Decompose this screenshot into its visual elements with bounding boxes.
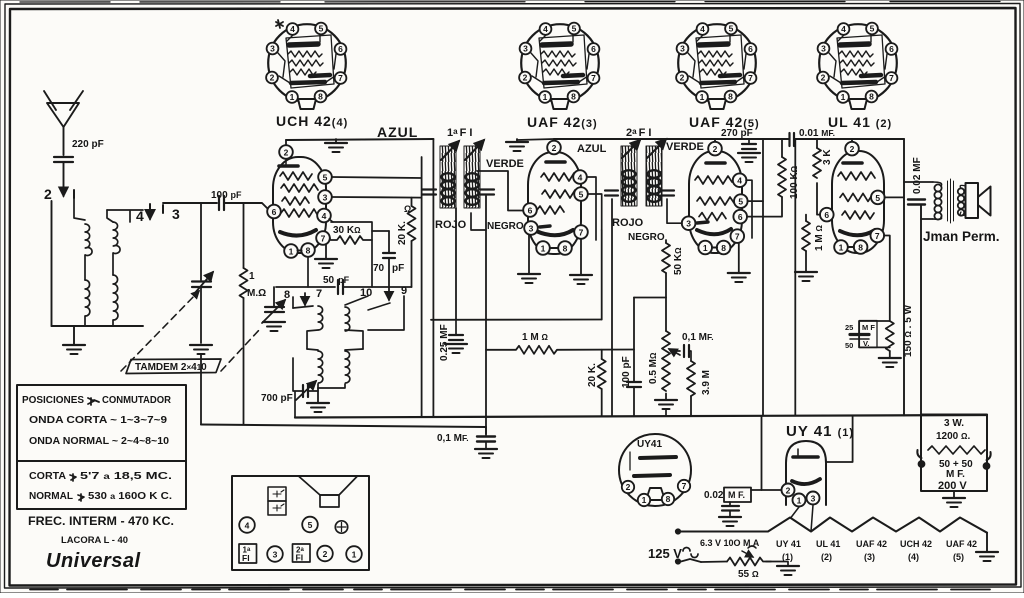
svg-text:2aF I: 2aF I: [626, 127, 651, 139]
svg-text:AZUL: AZUL: [377, 124, 418, 140]
wire UY41 plate to bus: [826, 416, 853, 462]
ground gang 2: [263, 322, 285, 331]
wire pin3 to IF2: [667, 199, 682, 223]
svg-text:3: 3: [686, 219, 691, 229]
connector box: [232, 476, 369, 570]
svg-text:0,1 MF.: 0,1 MF.: [437, 433, 469, 444]
transformer core: [948, 179, 954, 223]
svg-text:25: 25: [845, 323, 853, 332]
svg-text:UY41: UY41: [637, 439, 662, 450]
antenna coil L2 secondary: [107, 210, 120, 326]
capacitor 220 pF: [54, 139, 104, 196]
capacitor 100 pF AVC: [621, 356, 641, 415]
resistor 20 K: [397, 198, 416, 287]
border top smudge: [20, 1, 1000, 4]
connector terminal 2ª FI: [293, 544, 311, 563]
svg-text:7: 7: [316, 288, 322, 300]
wire 100pF branch: [633, 298, 635, 382]
svg-text:5: 5: [323, 173, 328, 183]
connector terminal 5: [302, 517, 318, 533]
svg-text:ONDA CORTA ~ 1~3~7~9: ONDA CORTA ~ 1~3~7~9: [29, 415, 168, 426]
svg-text:0,1 MF.: 0,1 MF.: [682, 332, 714, 343]
svg-text:6: 6: [272, 207, 277, 217]
ground UCH42 cathode: [315, 245, 337, 268]
wire B+ drop 2: [794, 139, 796, 416]
capacitor 0.02 MF tone: [908, 157, 925, 204]
svg-text:0.02: 0.02: [704, 490, 724, 501]
svg-text:50: 50: [845, 341, 853, 350]
svg-text:4: 4: [322, 211, 327, 221]
svg-text:NORMAL: NORMAL: [29, 491, 73, 502]
svg-text:50 KΩ: 50 KΩ: [673, 247, 684, 275]
svg-text:100 pF: 100 pF: [211, 190, 242, 201]
svg-text:1aF I: 1aF I: [447, 127, 472, 139]
svg-text:7: 7: [579, 228, 584, 238]
svg-text:(2): (2): [821, 552, 832, 562]
info box posiciones: [17, 385, 186, 461]
output pentode UL 41: [820, 139, 885, 254]
wire pin5 right down: [588, 194, 602, 230]
svg-text:1 M Ω: 1 M Ω: [814, 225, 825, 251]
svg-text:0.25 MF: 0.25 MF: [439, 324, 450, 361]
svg-text:6: 6: [738, 212, 743, 222]
ground electrolytic: [943, 491, 965, 507]
label TAMDEM 2x410: [121, 291, 260, 374]
heater chain 6.3V: [675, 518, 987, 552]
resistor 100 KΩ: [747, 139, 800, 217]
wire NEGRO secondary bottom: [471, 213, 486, 230]
svg-text:6: 6: [528, 206, 533, 216]
svg-text:200 V: 200 V: [938, 480, 967, 492]
ground heater chain: [976, 552, 998, 561]
svg-text:LACORA L - 40: LACORA L - 40: [61, 535, 128, 546]
svg-text:M F.: M F.: [946, 469, 965, 480]
svg-text:FI: FI: [296, 553, 304, 563]
wire IF1 inner down: [432, 139, 434, 417]
svg-text:700 pF: 700 pF: [261, 393, 293, 404]
ground UAF42(3) pin7: [570, 239, 592, 284]
svg-text:3 K: 3 K: [822, 149, 833, 165]
tuning capacitor gang section 1: [192, 203, 213, 343]
resistor 20 K decoupling: [587, 350, 606, 416]
wire L2 top to switch: [107, 210, 143, 222]
wire IF1 right top: [485, 196, 487, 434]
svg-text:1: 1: [703, 243, 708, 253]
svg-text:ONDA NORMAL ~ 2~4~8~10: ONDA NORMAL ~ 2~4~8~10: [29, 436, 169, 447]
svg-text:1: 1: [797, 496, 802, 506]
oscillator coil top-right: [345, 296, 404, 349]
svg-text:4: 4: [737, 176, 742, 186]
wire pin5 to screen: [885, 196, 904, 198]
svg-text:2: 2: [284, 148, 289, 158]
antenna: [44, 91, 83, 155]
svg-text:(1): (1): [782, 552, 793, 562]
svg-text:M F.: M F.: [728, 490, 745, 500]
ground below coils: [63, 326, 85, 354]
capacitor 0.01 MF: [790, 128, 905, 146]
heater labels: [776, 539, 977, 562]
svg-text:5: 5: [875, 193, 880, 203]
svg-text:2: 2: [44, 186, 53, 202]
tube top-view UL 41 (2): [817, 23, 897, 109]
connector terminal 1ª FI: [239, 544, 257, 563]
svg-text:ROJO: ROJO: [435, 219, 467, 231]
svg-text:M F: M F: [862, 323, 875, 332]
ground oscillator: [307, 388, 329, 412]
svg-text:3.9 M: 3.9 M: [701, 370, 712, 395]
svg-text:4: 4: [136, 208, 145, 224]
wire pin3 row: [332, 196, 422, 199]
wire pin5 to right: [332, 177, 422, 178]
svg-text:CONMUTADOR: CONMUTADOR: [102, 395, 172, 406]
oscillator terminals 8 7 10 9: [284, 285, 407, 308]
electrolytic 25MF 50V: [845, 321, 890, 351]
svg-text:3: 3: [529, 224, 534, 234]
svg-text:0.02 MF: 0.02 MF: [912, 157, 923, 194]
svg-text:100 pF: 100 pF: [621, 356, 632, 388]
svg-text:3: 3: [811, 494, 816, 504]
svg-text:pF: pF: [392, 263, 404, 274]
pentode UAF 42 (3): [523, 139, 588, 255]
svg-text:7: 7: [321, 234, 326, 244]
svg-text:NEGRO: NEGRO: [628, 232, 665, 243]
wire IF2 left down: [611, 199, 613, 416]
svg-text:1200 Ω.: 1200 Ω.: [936, 431, 970, 442]
capacitor 50 pF: [276, 275, 412, 294]
svg-text:FI: FI: [242, 553, 250, 563]
svg-text:(3): (3): [864, 552, 875, 562]
svg-text:NEGRO: NEGRO: [487, 221, 524, 232]
svg-text:4: 4: [245, 521, 250, 531]
resistor 1 MΩ grid leak: [240, 203, 267, 425]
triode-heptode UCH 42: [267, 140, 332, 258]
rectifier UY 41 symbol: [782, 423, 855, 507]
wire AVC return line: [201, 425, 486, 428]
svg-text:5'7 a 18,5 MC.: 5'7 a 18,5 MC.: [80, 471, 172, 482]
potentiometer 0.5 MΩ volume: [648, 298, 680, 400]
wire AVC line: [431, 319, 602, 321]
switch terminals 4 / 3: [136, 204, 181, 224]
ground volume pot: [655, 400, 677, 409]
svg-text:2: 2: [323, 549, 328, 559]
border bottom smudge: [30, 589, 990, 591]
svg-text:1: 1: [642, 495, 647, 505]
svg-text:8: 8: [306, 246, 311, 256]
tube top-view UAF 42 (5): [676, 23, 756, 109]
switch terminals 2 / 1: [44, 186, 74, 326]
svg-text:5: 5: [579, 190, 584, 200]
svg-text:270 pF: 270 pF: [721, 128, 753, 139]
capacitor 70 pF: [372, 231, 404, 300]
ground tuning cap: [190, 345, 212, 354]
svg-text:70: 70: [373, 263, 385, 274]
wire B+ bus bottom: [295, 415, 987, 418]
svg-text:Universal: Universal: [46, 550, 141, 572]
ground UAF42(5) pin7: [728, 243, 750, 282]
connector terminal 1: [346, 546, 362, 562]
pentode UAF 42 (5): [682, 139, 748, 254]
svg-text:20 K.: 20 K.: [587, 363, 598, 387]
wire UY41 cathode to 0.02: [762, 416, 782, 490]
resistor 3.9 M: [687, 361, 712, 416]
oscillator coil top-left: [293, 306, 323, 349]
ground on AZUL bus: [325, 139, 347, 152]
svg-text:3: 3: [323, 193, 328, 203]
wire bus 2nd: [554, 138, 789, 140]
ground on bus: [506, 139, 554, 151]
svg-text:7: 7: [735, 232, 740, 242]
svg-text:3 W.: 3 W.: [944, 418, 964, 429]
connector terminal 3: [267, 546, 283, 562]
svg-text:55 Ω: 55 Ω: [738, 569, 759, 580]
svg-text:POSICIONES: POSICIONES: [22, 395, 84, 406]
connector terminal +: [335, 521, 347, 533]
svg-text:TAMDEM 2×410: TAMDEM 2×410: [135, 362, 207, 373]
resistor 50 KΩ: [662, 240, 684, 298]
resistor 1 M grid UL41: [802, 215, 825, 271]
wire IF1 left down: [421, 157, 423, 417]
svg-text:1: 1: [289, 247, 294, 257]
svg-text:(5): (5): [953, 552, 964, 562]
resistor 3 K: [813, 139, 833, 215]
svg-text:6: 6: [824, 210, 829, 220]
capacitor IF1 secondary: [480, 190, 494, 195]
ground 55ohm: [777, 566, 799, 575]
wire pin5 right: [748, 200, 763, 202]
capacitor IF2 primary: [605, 191, 618, 196]
wire VERDE to grid pin6: [477, 171, 523, 211]
svg-text:3: 3: [273, 550, 278, 560]
svg-text:8: 8: [721, 243, 726, 253]
svg-text:1: 1: [249, 271, 255, 282]
svg-text:UCH 42: UCH 42: [900, 539, 932, 549]
svg-text:M.Ω: M.Ω: [247, 288, 266, 299]
oscillator coil bottom-left: [307, 349, 323, 388]
svg-text:8: 8: [666, 494, 671, 504]
oscillator coil bottom-right: [318, 303, 390, 388]
resistor 30 KΩ: [329, 219, 372, 287]
mains 125 V: [648, 546, 701, 564]
svg-text:30 KΩ: 30 KΩ: [333, 225, 361, 236]
svg-text:1 M Ω: 1 M Ω: [522, 332, 548, 343]
svg-text:5: 5: [738, 197, 743, 207]
tube top-view UCH 42 (4): [266, 20, 346, 109]
svg-text:VERDE: VERDE: [666, 141, 704, 153]
output transformer primary: [904, 182, 942, 220]
antenna coil L1: [74, 198, 92, 326]
svg-text:CORTA: CORTA: [29, 471, 66, 482]
IF transformer 2ª FI: [621, 127, 666, 206]
capacitor IF1 primary: [422, 190, 436, 195]
electrolytic box 50+50 MF 200V: [917, 415, 990, 493]
svg-text:2: 2: [850, 144, 855, 154]
svg-text:0.01 MF.: 0.01 MF.: [799, 128, 835, 139]
capacitor 0.25 MF: [439, 208, 467, 361]
svg-text:8: 8: [563, 244, 568, 254]
wire speaker branch: [920, 205, 922, 416]
connector terminal 4: [239, 517, 255, 533]
wire pin4 right: [746, 180, 752, 238]
svg-text:2: 2: [713, 144, 718, 154]
wire pin7 cathode: [884, 236, 890, 322]
capacitor 700 pF padder: [261, 358, 318, 404]
svg-text:Jman Perm.: Jman Perm.: [923, 229, 1000, 244]
info box bandas: [17, 461, 186, 509]
resistor 1 MΩ AVC: [486, 332, 634, 354]
capacitor 0,1 MF coupling: [674, 332, 714, 361]
svg-text:530 a 160O K C.: 530 a 160O K C.: [88, 491, 172, 502]
svg-text:1: 1: [839, 243, 844, 253]
svg-text:2: 2: [626, 482, 631, 492]
wire coil bottoms: [52, 325, 144, 327]
svg-text:V.: V.: [863, 339, 869, 348]
wire pin4 right: [587, 177, 596, 240]
capacitor 100 pF: [211, 190, 268, 210]
svg-text:(4): (4): [908, 552, 919, 562]
svg-text:1: 1: [352, 550, 357, 560]
svg-text:8: 8: [858, 243, 863, 253]
tuning capacitor gang section 2 (oscillator): [262, 287, 285, 323]
wire AVC junction: [634, 297, 666, 299]
svg-text:3: 3: [172, 206, 181, 222]
svg-text:20 K.: 20 K.: [397, 221, 408, 245]
svg-text:UL 41: UL 41: [816, 539, 840, 549]
IF transformer 1ª FI: [440, 127, 484, 208]
svg-text:FREC. INTERM - 470 KC.: FREC. INTERM - 470 KC.: [28, 514, 174, 528]
capacitor 270 pF: [721, 128, 760, 162]
svg-text:ROJO: ROJO: [612, 217, 644, 229]
wire pin7 drop: [601, 230, 603, 320]
heater tap wires: [791, 505, 813, 532]
svg-text:5: 5: [308, 520, 313, 530]
resistor 150 Ω 5W: [886, 304, 914, 357]
svg-text:AZUL: AZUL: [577, 143, 607, 155]
svg-text:VERDE: VERDE: [486, 158, 524, 170]
ground cathode UL41: [879, 358, 901, 367]
svg-text:7: 7: [682, 481, 687, 491]
wire oscillator to bus: [294, 392, 296, 418]
svg-text:UAF 42: UAF 42: [856, 539, 887, 549]
capacitor 0,1 MF line filter: [437, 427, 497, 458]
connector terminal 2: [317, 546, 333, 562]
svg-text:UY 41: UY 41: [776, 539, 801, 549]
svg-text:7: 7: [875, 231, 880, 241]
wire B+ drop 1: [762, 139, 764, 416]
svg-text:220 pF: 220 pF: [72, 139, 104, 150]
output transformer secondary: [958, 188, 964, 215]
svg-text:2: 2: [552, 143, 557, 153]
loudspeaker Iman Perm.: [960, 183, 990, 218]
wire pin8 down: [307, 257, 309, 287]
ground 1M: [795, 272, 817, 281]
tube top-view UAF 42 (3): [519, 23, 599, 109]
svg-text:1: 1: [541, 244, 546, 254]
wire AZUL bus: [286, 124, 433, 140]
wire to 100pF: [163, 202, 217, 204]
resistor 55 Ω line cord: [701, 546, 788, 580]
capacitor 0.02 MF ripple: [704, 488, 762, 527]
ground UAF42(3) pin3: [518, 235, 540, 283]
svg-text:4: 4: [578, 173, 583, 183]
svg-text:0.5 MΩ: 0.5 MΩ: [648, 352, 659, 384]
svg-text:2: 2: [786, 486, 791, 496]
svg-text:UAF 42: UAF 42: [946, 539, 977, 549]
tube top-view UY 41: [619, 434, 691, 506]
wire B+ vertical right: [903, 139, 905, 416]
capacitor IF2 secondary: [661, 191, 674, 196]
svg-text:100 KΩ: 100 KΩ: [789, 165, 800, 199]
